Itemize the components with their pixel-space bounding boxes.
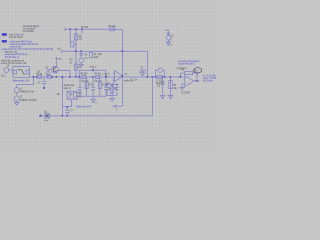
svg-text:R1 50: R1 50: [36, 74, 43, 76]
node stub vmid_2: [92, 68, 94, 70]
svg-text:Sallen-Key LPF: Sallen-Key LPF: [76, 107, 92, 109]
shunt capacitor C1: [38, 77, 47, 89]
junction dots right of G1: [147, 76, 149, 78]
OUT net flag oval: [194, 68, 202, 76]
lower-left divider cluster: [57, 76, 83, 116]
bias divider verticals: [69, 29, 71, 43]
svg-text:.param fo=1k Q=.707 C=10n R={1: .param fo=1k Q=.707 C=10n R={1/(2*pi*fo*…: [1, 48, 53, 51]
spice directive comment block top-left: [22, 25, 40, 33]
.tran directive highlighted token: [2, 33, 7, 35]
junction dots on main line (emitter area): [56, 76, 58, 78]
resistor R9 vertical: [74, 34, 77, 40]
bias rail top y29: [66, 28, 123, 30]
cap leg 2: [116, 85, 118, 96]
sine source V1: [14, 88, 34, 94]
series resistor R1 on main line: [36, 71, 43, 78]
shunt leg C4: [104, 77, 111, 96]
resistor R10 bridging: [70, 42, 76, 47]
input source V4: [1, 65, 13, 77]
ladder series resistor R3: [80, 73, 88, 78]
svg-text:.meas iavg AVG I(V1) ac: .meas iavg AVG I(V1) ac: [4, 53, 28, 56]
svg-text:100n: 100n: [93, 57, 99, 59]
junction dot at op-amp output: [122, 75, 124, 77]
collector stub with supply flag: [56, 58, 58, 66]
svg-text:@ 10 kHz: @ 10 kHz: [203, 81, 214, 83]
ground mid ladder: [91, 99, 96, 102]
svg-text:Butterworth_LP4: Butterworth_LP4: [13, 79, 30, 82]
notch parallel RL: [155, 68, 164, 85]
supply source V3 top right: [166, 30, 175, 47]
resistor R8 on top rail: [109, 26, 117, 31]
dc source V2: [14, 93, 37, 102]
bjt Q1: [45, 66, 58, 73]
shunt leg R13: [98, 77, 107, 96]
op-amp bias RC cluster: [105, 79, 119, 101]
svg-text:output filter gain 2: output filter gain 2: [178, 63, 196, 66]
behavioral source G1 on line: [131, 65, 146, 81]
output shunt cap C5: [157, 76, 165, 99]
svg-text:SINE(0 0.25 2k3): SINE(0 0.25 2k3): [20, 100, 37, 102]
cap above bottom wire: [65, 106, 73, 117]
.meas directive highlighted token: [2, 40, 7, 42]
svg-text:LTC6240: LTC6240: [181, 92, 191, 94]
main signal wire: [29, 76, 183, 78]
emitter to output wire: [57, 71, 71, 77]
svg-text:divider bias: divider bias: [64, 84, 76, 87]
svg-text:AC 1: AC 1: [1, 75, 7, 78]
shunt leg C3: [91, 77, 102, 96]
ground under V2: [14, 102, 19, 106]
svg-text:ratio 2:1: ratio 2:1: [64, 87, 72, 90]
svg-text:source 50 ohm macro mdl: source 50 ohm macro mdl: [1, 62, 27, 65]
svg-text:G1 2m: G1 2m: [131, 79, 138, 81]
cap leg: [106, 85, 108, 96]
svg-text:smooth reconstruction: smooth reconstruction: [178, 60, 200, 63]
shunt leg R12: [85, 77, 94, 96]
middle RC ladder top rail: [79, 70, 106, 77]
junction input node: [33, 76, 35, 78]
feedback loop wire: [181, 73, 198, 81]
op-amp output wire: [194, 80, 200, 82]
svg-text:fc = 1.02 kHz: fc = 1.02 kHz: [203, 75, 216, 77]
svg-text:R3 3k2: R3 3k2: [80, 73, 88, 75]
op-amp U2: [113, 71, 133, 83]
op-amp U3: [180, 76, 194, 95]
svg-text:out_1: out_1: [104, 73, 110, 76]
base wire and source I1: [48, 70, 52, 72]
svg-text:SINE(0 0.5 1k): SINE(0 0.5 1k): [20, 92, 34, 94]
svg-text:.opt noopiter: .opt noopiter: [22, 30, 34, 33]
svg-text:atten = -96 dB: atten = -96 dB: [203, 77, 216, 80]
mid rail y51: [62, 50, 147, 52]
resistor R2 on x76 drop: [70, 60, 82, 70]
ground for bus x122.5: [115, 105, 122, 107]
bias source V5 with ground: [79, 50, 88, 66]
bottom feedback wire: [41, 115, 153, 117]
input riser wire from source stack: [17, 77, 34, 87]
svg-text:R4 3k2: R4 3k2: [94, 73, 102, 75]
svg-text:5th RC filter x1: 5th RC filter x1: [5, 56, 20, 59]
bottom bus of ladder: [76, 95, 106, 97]
svg-text:ladder filter synthesis 4o: ladder filter synthesis 4o: [1, 59, 25, 62]
shunt leg C2: [78, 77, 89, 96]
capacitor C8 on mid rail: [90, 52, 103, 59]
sense element on bottom wire: [44, 111, 49, 122]
series component on line: [47, 76, 51, 79]
svg-text:.meas thd 20: .meas thd 20: [9, 45, 22, 48]
junction dots on main line (ladder): [78, 76, 80, 78]
output shunt resistor R6: [168, 76, 177, 99]
junction dot node out_1: [105, 76, 107, 78]
filter block X1: [13, 67, 30, 78]
svg-text:R8 10k: R8 10k: [109, 26, 117, 28]
junction and stub for R9: [81, 28, 83, 30]
feedback resistor R5: [181, 70, 197, 75]
junction dots on mid rail: [122, 50, 124, 52]
resistor leg: [111, 85, 113, 96]
junction node after series component: [52, 76, 54, 78]
junction dots on top rail: [69, 28, 71, 30]
vertical bus from rail corner: [122, 29, 124, 106]
svg-text:vmid_2: vmid_2: [89, 67, 97, 69]
svg-text:out: out: [195, 70, 198, 73]
svg-text:.four 1k V(out): .four 1k V(out): [9, 36, 23, 39]
ladder series resistor R4: [94, 73, 102, 78]
